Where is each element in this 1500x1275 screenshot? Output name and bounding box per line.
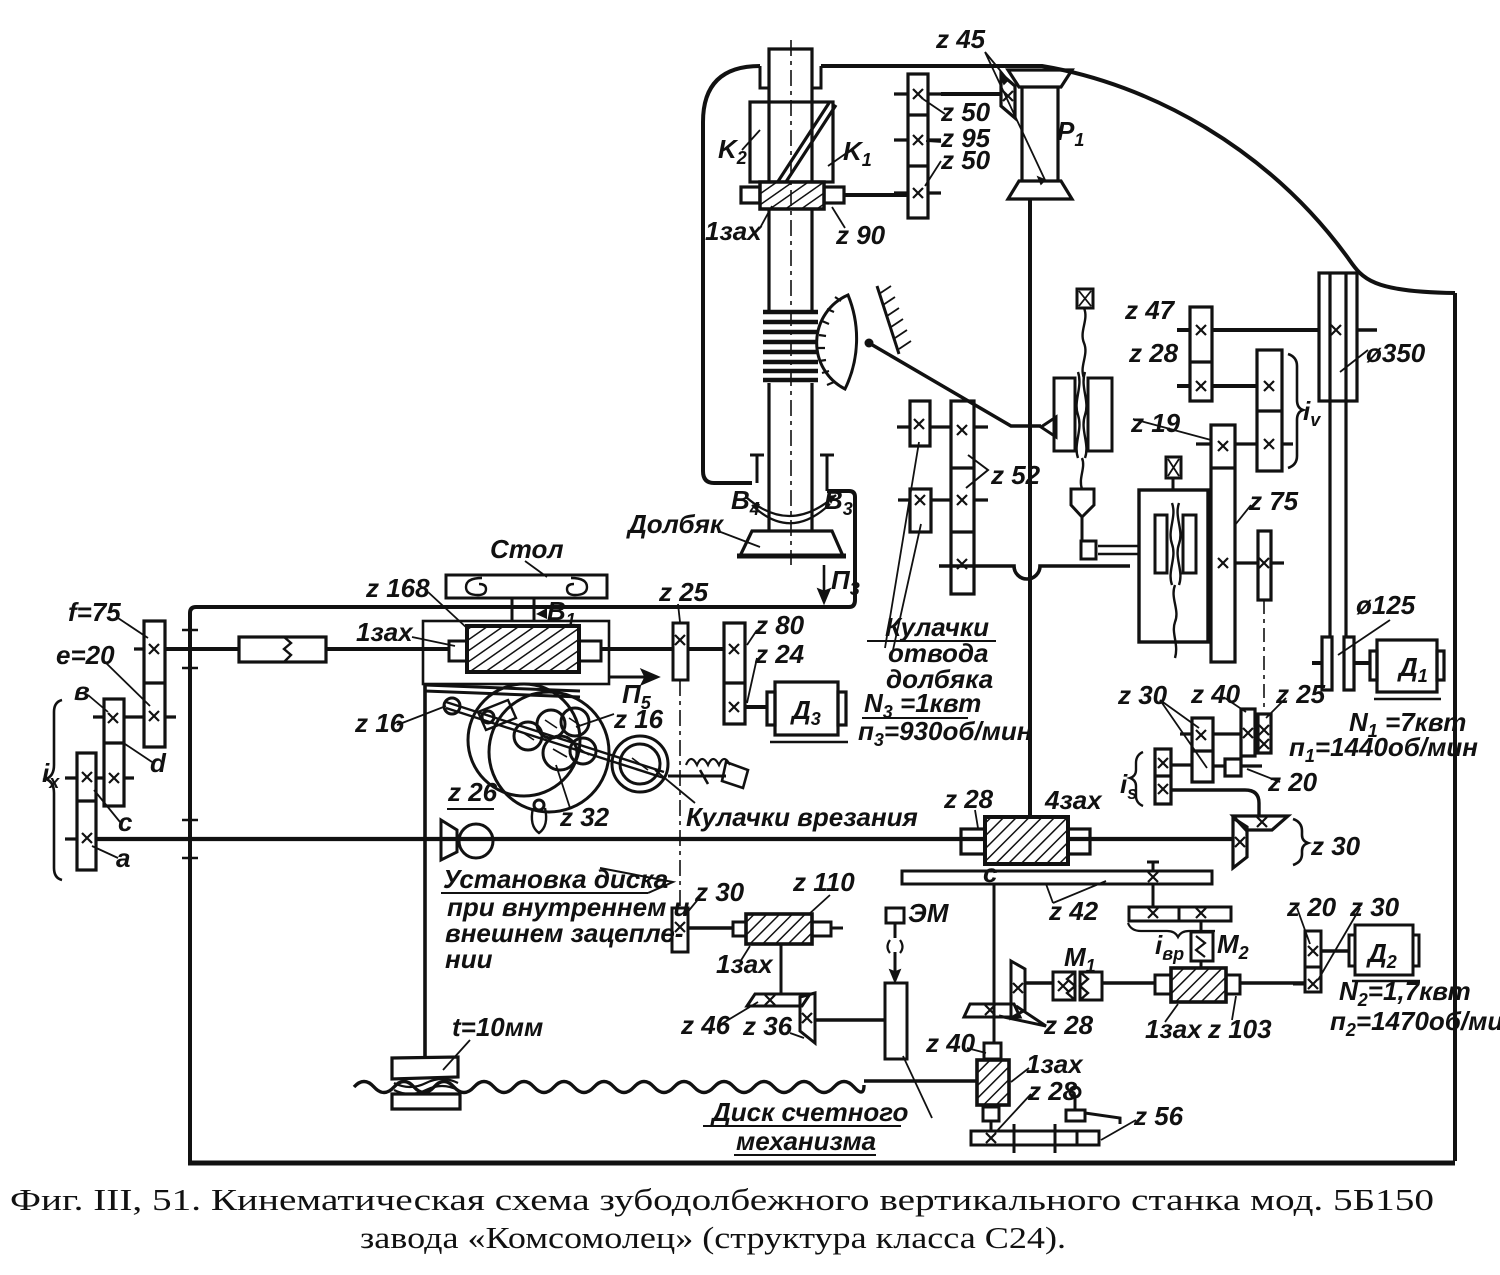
svg-text:z 24: z 24 (754, 639, 805, 669)
svg-text:d: d (150, 748, 167, 778)
svg-text:z 47: z 47 (1124, 295, 1176, 325)
svg-text:1зах: 1зах (1026, 1049, 1084, 1079)
svg-text:t=10мм: t=10мм (452, 1012, 543, 1042)
svg-text:долбяка: долбяка (886, 664, 993, 694)
svg-text:z 28: z 28 (1128, 338, 1179, 368)
svg-text:z 45: z 45 (935, 24, 986, 54)
svg-text:z 25: z 25 (1275, 679, 1326, 709)
svg-text:z 25: z 25 (658, 577, 709, 607)
svg-text:Диск счетного: Диск счетного (710, 1097, 909, 1127)
svg-text:z 40: z 40 (925, 1028, 976, 1058)
svg-text:1зах: 1зах (705, 216, 763, 246)
svg-text:z 19: z 19 (1130, 408, 1181, 438)
svg-text:z 75: z 75 (1248, 486, 1299, 516)
svg-text:z 40: z 40 (1190, 679, 1241, 709)
svg-text:z 110: z 110 (792, 867, 855, 897)
svg-text:п3=930об/мин: п3=930об/мин (858, 716, 1033, 750)
svg-text:z 28: z 28 (1043, 1010, 1094, 1040)
svg-text:z 30: z 30 (694, 877, 745, 907)
svg-text:Фиг. III, 51. Кинематическая с: Фиг. III, 51. Кинематическая схема зубод… (10, 1182, 1434, 1217)
svg-text:п2=1470об/мин: п2=1470об/мин (1330, 1006, 1500, 1040)
svg-text:c: c (118, 807, 133, 837)
svg-text:e=20: e=20 (56, 640, 115, 670)
svg-text:Стол: Стол (490, 534, 564, 564)
svg-text:завода «Комсомолец» (структура: завода «Комсомолец» (структура класса С2… (360, 1220, 1066, 1255)
svg-text:механизма: механизма (736, 1126, 876, 1156)
svg-text:z 42: z 42 (1048, 896, 1099, 926)
svg-text:Кулачки врезания: Кулачки врезания (686, 802, 918, 832)
svg-text:z 80: z 80 (754, 610, 805, 640)
svg-text:Установка диска: Установка диска (443, 864, 668, 894)
svg-text:4зах: 4зах (1044, 785, 1103, 815)
svg-text:c: c (983, 858, 998, 888)
svg-text:z 50: z 50 (940, 145, 991, 175)
svg-text:ø125: ø125 (1356, 590, 1416, 620)
svg-text:z 103: z 103 (1207, 1014, 1272, 1044)
svg-text:z 20: z 20 (1286, 892, 1337, 922)
svg-text:Долбяк: Долбяк (626, 509, 725, 539)
svg-text:ЭМ: ЭМ (908, 898, 950, 928)
svg-text:z 46: z 46 (680, 1010, 731, 1040)
svg-text:z 30: z 30 (1349, 892, 1400, 922)
svg-text:z 36: z 36 (742, 1011, 793, 1041)
svg-text:1зах: 1зах (716, 949, 774, 979)
svg-text:п1=1440об/мин: п1=1440об/мин (1289, 732, 1478, 766)
svg-text:z 168: z 168 (365, 573, 430, 603)
svg-text:z 52: z 52 (990, 460, 1041, 490)
svg-text:ø350: ø350 (1366, 338, 1426, 368)
svg-text:z 16: z 16 (613, 704, 664, 734)
svg-text:z 32: z 32 (559, 802, 610, 832)
svg-text:z 30: z 30 (1117, 680, 1168, 710)
svg-text:f=75: f=75 (68, 597, 121, 627)
svg-text:z 90: z 90 (835, 220, 886, 250)
svg-text:a: a (116, 843, 130, 873)
svg-text:z 20: z 20 (1267, 767, 1318, 797)
svg-text:в: в (74, 676, 90, 706)
svg-text:z 28: z 28 (1027, 1076, 1078, 1106)
svg-text:1зах: 1зах (1145, 1014, 1203, 1044)
svg-text:z 26: z 26 (447, 777, 498, 807)
svg-text:z 16: z 16 (354, 708, 405, 738)
svg-text:z 56: z 56 (1133, 1101, 1184, 1131)
svg-text:нии: нии (445, 944, 493, 974)
svg-text:z 28: z 28 (943, 784, 994, 814)
svg-text:z 30: z 30 (1310, 831, 1361, 861)
svg-text:1зах: 1зах (356, 617, 414, 647)
